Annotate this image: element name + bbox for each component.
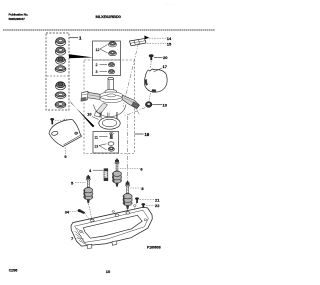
front leg [95,103,108,117]
svg-text:Publication No.: Publication No. [9,12,29,16]
label 22 [146,203,160,208]
left leg with bracket foot [81,91,100,101]
kit part lower 2 [108,69,115,73]
svg-text:P160608: P160608 [147,245,161,249]
pointer wedge 1 [69,54,93,58]
label 2 [96,63,108,67]
label 20 [154,55,168,60]
svg-text:C2/96: C2/96 [9,269,18,273]
motor mount plate [49,120,82,147]
centerline blob to nut [149,93,151,101]
label 14 [149,36,172,41]
svg-text:5995298047: 5995298047 [9,17,26,21]
label 7 plate [71,236,84,241]
kit part upper 2 [109,51,117,56]
svg-text:17: 17 [163,64,168,69]
fastener nut A [55,38,65,46]
transmission shaft [108,77,114,92]
svg-text:...... ... . . . . .: ...... ... . . . . . [163,2,180,6]
header rule [3,29,215,31]
label 6 center isolator [120,167,144,172]
seal boot item 17 [144,69,167,92]
svg-text:15: 15 [167,41,172,46]
svg-text:14: 14 [167,36,172,41]
svg-text:10: 10 [87,112,91,116]
nut item 19 [145,102,152,108]
label 34 lower [65,210,77,214]
label 4 damper [89,168,103,173]
label 5 left isolator [71,180,86,185]
retainer nut part [108,147,114,151]
label 21 [140,197,161,202]
kit box divider [47,75,69,77]
svg-text:11: 11 [94,135,98,139]
gasket ring item 10 [99,117,120,129]
base plate left-end hatching [75,228,89,246]
svg-text:MLXE62RBD0: MLXE62RBD0 [96,14,122,19]
drive block item 14/15 [130,36,150,46]
svg-text:20: 20 [163,55,168,60]
isolator bolt left [84,175,93,203]
label 17 [154,64,168,72]
svg-text:9: 9 [64,154,67,159]
gearcase dome [94,105,127,120]
bolt part [109,133,113,139]
label 8 right isolator [130,186,144,191]
screw 21 centerline [132,203,137,216]
centerline cross diag [129,98,140,115]
kit box (dashed) with fastener stack [46,33,69,110]
damper pad item 4 [104,169,108,181]
fastener nut B [55,47,65,55]
svg-text:13: 13 [94,144,98,148]
o-ring part [108,142,114,146]
pointer wedge 2 [70,101,95,128]
base screw item 34b [78,209,91,221]
svg-text:21: 21 [155,197,160,202]
svg-text:12: 12 [96,48,100,52]
vertical centerline right isolator [127,116,129,212]
label 18 [135,132,150,137]
svg-text:22: 22 [155,203,160,208]
fastener nut C [56,57,66,65]
label 3 [96,70,108,74]
svg-text:19: 19 [163,102,168,107]
svg-text:10: 10 [106,269,111,274]
label 10 [87,112,98,119]
isolator bolt right [123,181,132,209]
svg-text:2: 2 [96,63,98,67]
svg-text:1: 1 [79,36,82,41]
svg-text:6: 6 [140,167,143,172]
centerline from drive block to shaft [123,43,139,107]
svg-text:7: 7 [71,236,74,241]
svg-text:3: 3 [96,70,98,74]
fastener nut E [56,82,66,90]
screw item 21 [135,197,139,203]
label 19 [153,102,168,107]
seal kit divider [93,59,121,61]
right leg with dark foot [122,95,140,108]
fastener washer G [55,101,66,108]
screw item 20 [149,54,154,68]
plate leader down [64,148,66,154]
svg-text:18: 18 [145,132,150,137]
fastener washer F [55,92,66,99]
svg-text:5: 5 [71,180,74,185]
centerline nut to hub [125,108,146,117]
base plate frame [71,205,152,249]
transmission hub [99,90,123,103]
header publication text [9,12,29,20]
mount plate screw item 34a [50,118,54,124]
screw 22 centerline [138,209,144,222]
bolt kit box [93,132,119,154]
label 15 [147,41,172,46]
label 34 upper [55,119,68,123]
fastener washer D [55,66,66,73]
washer screw item 22 [141,203,145,209]
transmission boundary box (dashed) [84,60,135,154]
isolator bolt center [112,159,121,187]
label 13 [94,144,106,150]
kit part lower 1 [108,62,115,66]
svg-text:4: 4 [89,168,92,173]
svg-text:34: 34 [65,210,70,214]
seal kit box [93,41,121,76]
label 1 [69,36,82,41]
left isolator centerline to plate [89,204,92,220]
kit part upper 1 [109,41,117,47]
label 12 with fan leaders [96,45,108,54]
label 11 [94,135,107,139]
svg-text:8: 8 [141,186,144,191]
